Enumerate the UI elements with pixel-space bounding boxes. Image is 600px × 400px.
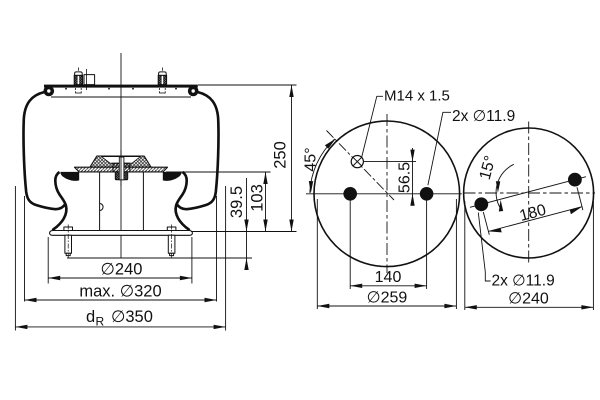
bellows wedge left [60, 172, 79, 181]
svg-text:R: R [96, 315, 105, 329]
svg-text:∅240: ∅240 [101, 261, 143, 279]
bellows wedge right [163, 172, 182, 181]
bolt hole right c1 [420, 187, 434, 201]
svg-text:250: 250 [272, 141, 290, 169]
dimension D240 [48, 237, 192, 284]
rivet pips [65, 88, 67, 90]
leader 2x D11.9 bottom [478, 213, 490, 282]
air fitting M14 [351, 156, 363, 168]
vertical centerline c2 [528, 122, 530, 264]
center bolt nut [115, 172, 127, 180]
svg-text:140: 140 [375, 269, 402, 286]
svg-text:39.5: 39.5 [228, 186, 246, 218]
horizontal centerline c2 [464, 192, 596, 194]
extension line piston top [166, 171, 271, 173]
svg-text:∅240: ∅240 [508, 291, 549, 308]
45 deg arc [310, 139, 335, 193]
bolt hole left c1 [343, 187, 357, 201]
15 deg arc [496, 164, 514, 210]
rolled lip right [188, 86, 199, 97]
dimension D240 c2 [465, 201, 594, 310]
rolling lobe left [53, 172, 67, 231]
extension line piston bottom [191, 231, 297, 233]
bead plate circle 2 [464, 128, 594, 258]
svg-text:∅259: ∅259 [367, 290, 408, 307]
piston top plate [75, 167, 168, 172]
svg-text:d: d [86, 308, 95, 326]
top plate [44, 85, 198, 88]
piston bottom plate [50, 231, 193, 236]
svg-text:180: 180 [518, 202, 548, 225]
horizontal centerline c1 [306, 193, 462, 195]
bellows top edge line [51, 96, 191, 98]
mounting bolt left [64, 225, 73, 259]
piston cap [90, 156, 151, 167]
stud 1 [74, 68, 82, 94]
piston wall right [142, 172, 144, 231]
bolt hole upper right c2 [568, 173, 582, 187]
center bolt washer [113, 163, 130, 172]
stud 2 [158, 68, 166, 94]
dimension 180 [483, 187, 583, 235]
dimension 140 [350, 201, 426, 290]
svg-text:45°: 45° [303, 147, 320, 171]
bolt diagonal c2 [470, 177, 586, 208]
rolling lobe right [176, 172, 190, 231]
cap crater [102, 157, 141, 164]
bellows outer contour left [24, 92, 66, 209]
svg-text:2x ∅11.9: 2x ∅11.9 [492, 273, 555, 290]
extension line bolt end [67, 257, 252, 259]
rolled lip left [44, 86, 55, 97]
centerline overlay through bolt [120, 150, 122, 186]
dimension 39.5 [228, 178, 249, 270]
svg-text:∅350: ∅350 [111, 308, 153, 326]
svg-text:M14 x 1.5: M14 x 1.5 [384, 88, 450, 105]
bead plate circle 1 [314, 121, 460, 267]
dimension dR D350 [15, 186, 225, 331]
fitting level line [364, 161, 416, 163]
dimension D259 [317, 199, 456, 309]
leader 2x D11.9 top [428, 112, 451, 185]
dimension 103 [249, 172, 268, 232]
svg-text:max. ∅320: max. ∅320 [79, 283, 161, 301]
dimension 56.5 [397, 148, 415, 206]
bellows outer contour right [176, 92, 218, 209]
dimension 250 [272, 85, 294, 232]
45 deg diagonal [327, 131, 395, 201]
vertical centerline c1 [386, 114, 388, 273]
svg-text:2x ∅11.9: 2x ∅11.9 [452, 108, 515, 125]
leader M14 x 1.5 [362, 96, 383, 157]
extension line top plate [198, 84, 297, 86]
dimension max D320 [25, 196, 217, 302]
air fitting block [84, 75, 95, 85]
bolt hole lower left c2 [474, 197, 488, 211]
centerline of side view [120, 53, 122, 258]
svg-text:103: 103 [249, 184, 267, 212]
piston wall detail arc [100, 204, 104, 211]
mounting bolt right [167, 225, 176, 259]
svg-text:15°: 15° [477, 154, 500, 182]
piston wall left [99, 172, 101, 231]
svg-text:56.5: 56.5 [397, 162, 414, 193]
center bolt shaft [119, 157, 124, 180]
